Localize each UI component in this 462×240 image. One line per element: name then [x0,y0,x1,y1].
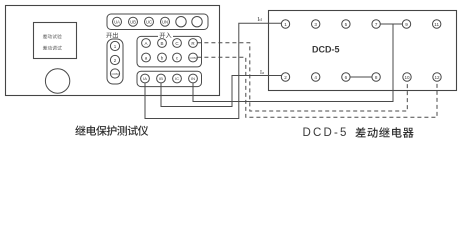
terminal 9 [402,20,410,28]
display text line 1 [43,34,62,38]
svg-text:COM: COM [190,56,198,60]
terminal 6 [342,73,350,81]
voltage terminal group rect [107,14,208,30]
terminal UA [113,17,122,26]
svg-text:UC: UC [146,19,152,24]
tester outer box [6,6,220,96]
terminal 5 [342,20,350,28]
terminal 10 [403,73,411,81]
svg-text:4: 4 [314,75,317,80]
terminal UC [145,17,154,26]
jumper 7-9 [380,23,402,25]
开出 group rect [107,39,123,84]
svg-text:IB: IB [159,76,163,81]
svg-text:UA: UA [114,19,120,24]
button A [142,39,151,48]
terminal IB [157,74,166,83]
blank terminal 1 [176,17,186,27]
terminal IN [189,74,198,83]
terminal 1 [281,20,289,28]
DCD-5 relay box [269,11,457,91]
svg-text:2: 2 [284,75,287,80]
display text line 2 [43,46,62,50]
svg-text:8: 8 [375,75,378,80]
dial knob [45,69,69,93]
terminal 12 [433,73,441,81]
svg-text:7: 7 [375,22,378,27]
label 开入 [158,31,173,38]
svg-text:A: A [144,41,147,46]
button COM (开出) [110,69,119,78]
terminal UB [129,17,138,26]
terminal 11 [433,20,441,28]
wire IB to terminal 2 [161,76,282,107]
button B [158,39,167,48]
wire IN to jumper 7-9 tap [193,25,393,102]
button c [173,53,182,62]
dashed wire R to terminal 10 [197,43,407,111]
button a [142,53,151,62]
svg-text:B: B [160,41,163,46]
display screen [34,23,77,59]
svg-text:12: 12 [434,75,440,80]
svg-text:11: 11 [434,22,439,27]
button 2 [110,55,119,64]
button 1 [110,41,119,50]
svg-text:DCD-5: DCD-5 [303,127,349,139]
terminal 7 [372,20,380,28]
terminal IC [173,74,182,83]
button b [158,53,167,62]
svg-text:5: 5 [345,22,348,27]
svg-text:1: 1 [284,22,287,27]
jumper 6-8 [350,76,372,78]
开入 group rect [137,36,202,67]
blank terminal 2 [192,17,202,27]
svg-text:6: 6 [345,75,348,80]
dashed wire COM to terminal 12 [197,57,437,117]
current terminal group rect [137,71,202,86]
svg-text:IN: IN [191,76,195,81]
svg-text:9: 9 [405,22,408,27]
label 开出 [106,32,117,38]
terminal IA [141,74,150,83]
terminal 8 [372,73,380,81]
wire IA to terminal 1 [145,23,282,118]
terminal UN [161,17,170,26]
svg-text:10: 10 [404,75,410,80]
svg-text:3: 3 [314,22,317,27]
button C [173,39,182,48]
svg-text:UN: UN [162,19,168,24]
svg-text:UB: UB [130,19,136,24]
caption 继电保护测试仪 [75,125,148,135]
button COM (开入) [189,53,198,62]
terminal 2 [281,73,289,81]
svg-text:IA: IA [143,76,147,81]
terminal 3 [312,20,320,28]
svg-text:COM: COM [112,72,120,76]
svg-text:DCD-5: DCD-5 [312,45,340,55]
svg-text:IC: IC [175,76,179,81]
button R [189,39,198,48]
terminal 4 [312,73,320,81]
